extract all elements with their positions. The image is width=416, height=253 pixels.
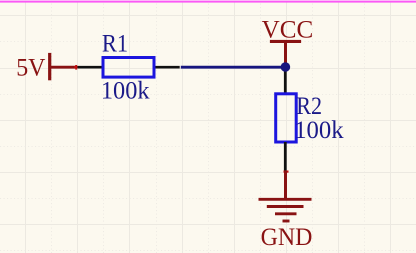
svg-text:VCC: VCC <box>262 16 314 43</box>
svg-text:5V: 5V <box>16 55 45 82</box>
svg-text:100k: 100k <box>101 77 150 104</box>
svg-text:GND: GND <box>261 224 313 251</box>
svg-text:R1: R1 <box>102 31 128 58</box>
svg-text:100k: 100k <box>294 117 344 144</box>
